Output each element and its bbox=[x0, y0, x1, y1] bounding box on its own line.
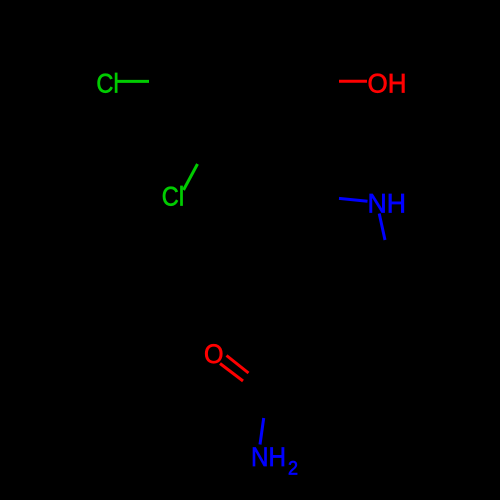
bond CH to N (blue half, near-horizontal) bbox=[339, 198, 368, 201]
bond N to CH2 (blue half, descending) bbox=[379, 214, 385, 241]
double bond C=O lower line (red half) bbox=[220, 364, 243, 382]
svg-text:OH: OH bbox=[368, 68, 407, 98]
bond Cl1 to ring carbon (green half, horizontal) bbox=[118, 80, 150, 83]
bond Cl2 to ring carbon (green half, diagonal) bbox=[184, 164, 198, 190]
bond O to ring carbon (red half, horizontal) bbox=[339, 80, 367, 83]
svg-text:Cl: Cl bbox=[162, 182, 184, 212]
bond amide C to N (blue half, near-vertical) bbox=[260, 418, 264, 445]
svg-text:NH: NH bbox=[368, 188, 407, 218]
svg-text:2: 2 bbox=[288, 459, 298, 480]
svg-text:NH: NH bbox=[251, 442, 286, 472]
svg-text:Cl: Cl bbox=[96, 68, 118, 98]
double bond C=O upper line (red half) bbox=[227, 356, 249, 374]
